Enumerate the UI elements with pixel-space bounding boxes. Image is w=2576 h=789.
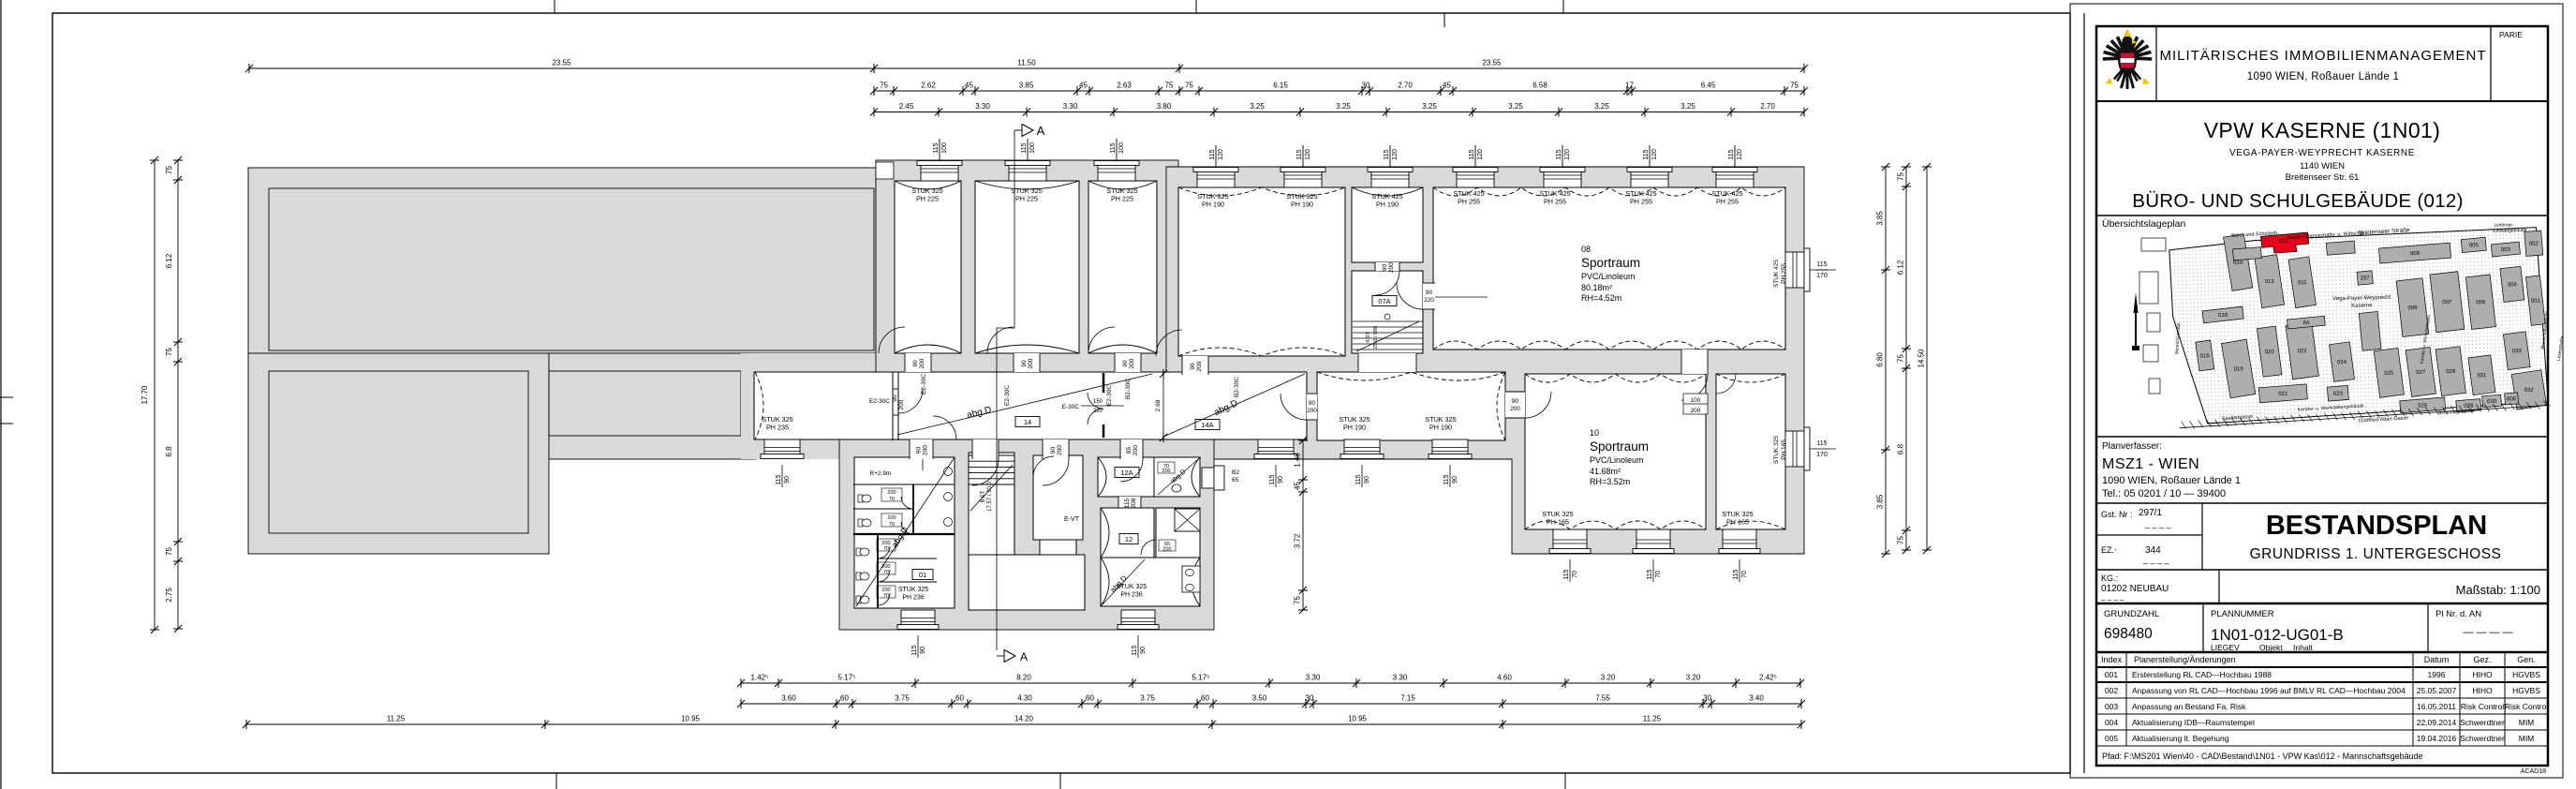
svg-text:70: 70 [889, 522, 895, 528]
svg-text:200: 200 [1510, 406, 1520, 412]
svg-text:PH 190: PH 190 [1376, 201, 1399, 209]
svg-text:E-30C: E-30C [1062, 404, 1080, 410]
svg-text:Datum: Datum [2424, 655, 2450, 664]
svg-text:014: 014 [2233, 261, 2243, 266]
window north 3 leader [1116, 139, 1118, 160]
svg-text:033: 033 [2512, 349, 2523, 354]
svg-text:200: 200 [1307, 408, 1317, 414]
svg-text:PH 190: PH 190 [1343, 424, 1366, 432]
svg-text:6.8: 6.8 [1897, 443, 1905, 454]
svg-text:001: 001 [2531, 299, 2541, 305]
door corridor-midroom [1307, 394, 1317, 420]
svg-text:Pl Nr. d. AN: Pl Nr. d. AN [2435, 609, 2481, 619]
svg-text:14: 14 [1024, 418, 1031, 426]
svg-text:200: 200 [919, 358, 925, 368]
svg-text:2.42⁵: 2.42⁵ [1759, 674, 1777, 682]
door evt arc [1033, 456, 1054, 477]
svg-text:115: 115 [933, 142, 940, 153]
svg-text:PH 190: PH 190 [1202, 201, 1224, 209]
svg-text:3.30: 3.30 [1393, 674, 1408, 682]
room cellar 2 STUK325 PH225 [975, 181, 1079, 353]
annex-building connector wall [741, 353, 876, 459]
fold mark top 1 [554, 0, 555, 13]
svg-text:Objekt: Objekt [2259, 643, 2283, 652]
window north 8 leader [1562, 145, 1563, 167]
svg-text:11.50: 11.50 [1017, 59, 1036, 67]
svg-text:3.30: 3.30 [975, 102, 990, 111]
svg-text:009: 009 [2407, 305, 2418, 311]
svg-text:90: 90 [1382, 264, 1388, 272]
svg-text:PH 190: PH 190 [1429, 424, 1452, 432]
svg-text:1996: 1996 [2428, 670, 2446, 679]
svg-text:25.05.2007: 25.05.2007 [2417, 686, 2457, 695]
window north 9 leader [1649, 145, 1651, 167]
svg-text:STUK 325: STUK 325 [1773, 436, 1780, 464]
room 12A label [1115, 468, 1139, 478]
window north 9 [1631, 171, 1668, 187]
svg-text:4.30: 4.30 [1017, 694, 1032, 703]
stair shaft [969, 453, 1014, 555]
svg-text:11.25: 11.25 [387, 715, 406, 723]
svg-text:004: 004 [2508, 282, 2518, 288]
wc block room [854, 457, 955, 608]
svg-text:70: 70 [889, 497, 895, 502]
svg-text:_ _ _ _: _ _ _ _ [2144, 526, 2172, 535]
dim top row C [874, 112, 1804, 113]
annex north block [248, 168, 876, 353]
cell dims [1158, 462, 1175, 473]
svg-text:90: 90 [1190, 363, 1196, 370]
svg-text:200: 200 [1162, 547, 1171, 553]
door sport08-sport10 label [1683, 394, 1708, 414]
window east 2 leader [1810, 448, 1836, 450]
svg-text:30: 30 [1362, 82, 1370, 90]
fold mark bottom 3 [1564, 773, 1566, 789]
svg-text:120: 120 [1737, 149, 1743, 160]
svg-text:Inhalt: Inhalt [2293, 643, 2313, 652]
svg-text:Maßstab: 1:100: Maßstab: 1:100 [2456, 583, 2540, 597]
svg-text:3.25: 3.25 [1422, 102, 1437, 111]
svg-text:70: 70 [883, 570, 889, 575]
section line A [997, 130, 1014, 650]
window south band 2 leader [1275, 465, 1277, 487]
room double STUK325 PH190 [1178, 187, 1345, 356]
svg-text:PVC/Linoleum: PVC/Linoleum [1590, 455, 1644, 465]
svg-text:17.70: 17.70 [141, 385, 149, 405]
svg-text:HIHO: HIHO [2472, 670, 2493, 679]
svg-text:65: 65 [1232, 477, 1239, 484]
svg-text:115: 115 [1643, 149, 1650, 159]
svg-text:75: 75 [1897, 536, 1905, 544]
svg-text:001: 001 [2105, 670, 2118, 679]
svg-text:70: 70 [1741, 571, 1748, 578]
austrian eagle coat of arms [2103, 29, 2152, 89]
svg-text:Gez.: Gez. [2473, 655, 2491, 664]
wc stall dividers low [878, 558, 937, 559]
window north 8 [1544, 171, 1581, 187]
svg-text:115: 115 [1021, 142, 1028, 153]
stair steps [969, 454, 1014, 456]
wc wall x975 [912, 484, 914, 534]
fold mark top 3 [1562, 0, 1564, 13]
svg-text:75: 75 [165, 166, 173, 174]
svg-text:200: 200 [1196, 361, 1203, 371]
svg-text:PH 255: PH 255 [1458, 198, 1480, 206]
svg-text:1N01-012-UG01-B: 1N01-012-UG01-B [2211, 626, 2344, 644]
svg-text:VEGA-PAYER-WEYPRECHT KASERNE: VEGA-PAYER-WEYPRECHT KASERNE [2229, 148, 2415, 158]
corridor west end scallop [755, 372, 763, 439]
svg-text:11.25: 11.25 [1643, 715, 1662, 723]
svg-text:115: 115 [1563, 569, 1570, 579]
svg-text:011: 011 [2298, 280, 2307, 286]
sportraum 08 [1433, 187, 1785, 350]
door 12A-12 [1118, 497, 1141, 508]
svg-text:Planerstellung/Änderungen: Planerstellung/Änderungen [2134, 655, 2236, 664]
svg-text:90: 90 [912, 360, 919, 367]
svg-text:6.45: 6.45 [1701, 82, 1716, 90]
svg-text:2.70: 2.70 [1398, 82, 1413, 90]
dim top total row [249, 67, 1804, 69]
corridor room label 14A [1195, 420, 1220, 430]
svg-text:3.30: 3.30 [1306, 674, 1321, 682]
svg-text:3.85: 3.85 [1876, 494, 1885, 509]
room 12 [1101, 508, 1154, 558]
evt below strip [1040, 540, 1076, 555]
shaft X box [1175, 509, 1200, 531]
svg-text:005: 005 [2469, 243, 2480, 248]
wc room label 01 [912, 570, 933, 580]
section flag top [1014, 129, 1022, 131]
svg-text:14.20: 14.20 [1014, 715, 1034, 723]
svg-text:B2: B2 [1232, 469, 1239, 476]
grundzahl divider 2 [2427, 603, 2429, 652]
svg-text:75: 75 [1185, 82, 1193, 90]
svg-text:PLANNUMMER: PLANNUMMER [2211, 609, 2274, 619]
svg-text:200: 200 [1133, 445, 1139, 455]
svg-text:2.75: 2.75 [165, 588, 173, 603]
svg-text:STUK 425: STUK 425 [1773, 260, 1780, 288]
svg-text:3.25: 3.25 [1594, 102, 1609, 111]
svg-text:75: 75 [165, 348, 173, 356]
svg-text:PH 255: PH 255 [1716, 198, 1739, 206]
svg-text:1.42⁵: 1.42⁵ [751, 674, 769, 682]
svg-text:220: 220 [1424, 297, 1434, 304]
svg-text:90: 90 [892, 394, 898, 402]
svg-text:4.ST: 4.ST [1366, 332, 1371, 343]
south wing walls [839, 438, 1214, 630]
svg-text:027: 027 [2416, 370, 2426, 376]
svg-text:100: 100 [1691, 397, 1701, 404]
svg-text:008: 008 [2410, 251, 2421, 257]
svg-text:70: 70 [883, 593, 889, 599]
room 12 label [1119, 534, 1138, 544]
window north 5 leader [1302, 145, 1304, 167]
svg-text:R+2.9m: R+2.9m [870, 470, 892, 477]
fold mark top 4 [1443, 13, 1445, 27]
svg-text:806: 806 [2507, 396, 2517, 402]
svg-text:90: 90 [784, 476, 791, 484]
svg-text:MIM: MIM [2519, 734, 2535, 743]
wing wc cell [1182, 566, 1200, 592]
svg-text:E2-30C: E2-30C [1106, 385, 1113, 406]
door corridor-wc [910, 439, 933, 459]
svg-text:90: 90 [1364, 476, 1370, 484]
door sport08-sport10 [1681, 350, 1708, 374]
wing bottom room [1101, 558, 1200, 606]
svg-text:115: 115 [1469, 149, 1475, 159]
wc toilets [858, 495, 871, 502]
svg-text:75: 75 [1294, 596, 1302, 604]
svg-text:100: 100 [941, 142, 948, 154]
revision table [2096, 666, 2548, 668]
svg-text:ACAD18: ACAD18 [2521, 768, 2546, 775]
svg-text:01: 01 [919, 571, 926, 579]
svg-text:120: 120 [1651, 149, 1658, 160]
svg-text:HGVBS: HGVBS [2512, 686, 2540, 695]
dim right chain outer [1885, 167, 1887, 554]
stair circle [990, 446, 996, 452]
svg-text:Gen.: Gen. [2517, 655, 2536, 664]
stair vestibule 07A [1352, 271, 1423, 353]
svg-text:115: 115 [776, 474, 782, 484]
svg-text:115: 115 [1384, 149, 1390, 159]
svg-text:90: 90 [916, 447, 923, 454]
page left paper edge [0, 0, 2, 789]
svg-text:200: 200 [1691, 408, 1701, 414]
dim top row B west [874, 90, 1179, 92]
annex mid inner room [549, 371, 741, 436]
window north 6 leader [1389, 145, 1391, 167]
cell abgD [1158, 459, 1198, 495]
window east 1 [1785, 252, 1804, 288]
svg-text:12A: 12A [1120, 469, 1133, 477]
wc wall y543 [853, 508, 913, 510]
svg-text:90: 90 [1452, 476, 1458, 484]
svg-text:018: 018 [2218, 313, 2228, 319]
svg-text:70: 70 [1572, 571, 1578, 578]
corridor partition wall x953 [892, 372, 894, 440]
revision table top line [2096, 651, 2548, 654]
svg-text:237: 237 [2361, 275, 2371, 281]
svg-text:100: 100 [1029, 142, 1036, 154]
svg-text:698480: 698480 [2104, 626, 2153, 642]
svg-text:VPW KASERNE (1N01): VPW KASERNE (1N01) [2204, 118, 2441, 142]
svg-text:_ _ _ _: _ _ _ _ [2142, 555, 2170, 564]
corridor ceiling line 2 [1163, 374, 1305, 437]
svg-text:3.75: 3.75 [1140, 694, 1155, 703]
svg-text:3.75: 3.75 [895, 694, 910, 703]
svg-text:016: 016 [2200, 353, 2211, 359]
room east-south STUK325 PH165 [1716, 374, 1785, 529]
svg-text:Anpassung von RL CAD—Hochba: Anpassung von RL CAD—Hochbau 1996 auf BM… [2132, 686, 2406, 695]
door sport10 arc2 [1716, 374, 1736, 394]
svg-text:1090 WIEN, Roßauer Lände 1: 1090 WIEN, Roßauer Lände 1 [2102, 475, 2241, 486]
window east-wing south 1 leader [1569, 559, 1571, 582]
fold mark top 2 [1195, 0, 1197, 13]
room small STUK425 PH190 [1352, 187, 1423, 262]
svg-text:GRUNDZAHL: GRUNDZAHL [2104, 609, 2159, 619]
svg-text:30: 30 [1306, 694, 1314, 703]
svg-text:10: 10 [1590, 428, 1599, 438]
window east 1 leader [1810, 269, 1836, 271]
corridor partition door [893, 388, 898, 390]
svg-text:020: 020 [2265, 350, 2275, 355]
svg-text:120: 120 [1305, 149, 1311, 160]
svg-text:RH=4.52m: RH=4.52m [1581, 293, 1621, 303]
window south band 2 [1258, 439, 1294, 454]
svg-text:3.85: 3.85 [1019, 82, 1034, 90]
room mid-south top scallops [1317, 372, 1505, 380]
svg-text:3.60: 3.60 [781, 694, 796, 703]
svg-text:75: 75 [1165, 82, 1174, 90]
wc wall y570 thick [853, 533, 955, 535]
room 12A cell [1154, 457, 1200, 497]
window south band 4 leader [1449, 465, 1451, 487]
svg-text:14A: 14A [1201, 421, 1213, 429]
svg-text:23.55: 23.55 [552, 59, 571, 67]
west facade notch [876, 162, 894, 179]
svg-text:RH=3.52m: RH=3.52m [1590, 477, 1630, 486]
title column divider [2083, 13, 2085, 773]
svg-text:150: 150 [1093, 399, 1103, 405]
svg-text:3.25: 3.25 [1680, 102, 1695, 111]
corridor double door arcs [1088, 393, 1103, 409]
dim top row B east [1179, 90, 1804, 92]
svg-text:005: 005 [2105, 734, 2118, 743]
svg-text:90: 90 [1140, 647, 1147, 654]
svg-text:024: 024 [2337, 360, 2347, 365]
svg-text:E2-30C: E2-30C [921, 374, 927, 394]
window north 7 [1457, 171, 1494, 187]
svg-text:115: 115 [1296, 149, 1303, 159]
door midroom-sport10 [1505, 392, 1525, 418]
evt room [1033, 455, 1083, 540]
stair 07A circle [1384, 314, 1390, 320]
door room4-corridor [1182, 356, 1208, 375]
svg-text:023: 023 [2333, 392, 2344, 397]
svg-text:75: 75 [165, 547, 173, 556]
svg-text:PH 236: PH 236 [1120, 592, 1142, 599]
dim bottom row 2 [741, 703, 1801, 705]
svg-text:026: 026 [2418, 403, 2428, 409]
svg-text:17: 17 [1625, 82, 1634, 90]
svg-text:60: 60 [840, 694, 849, 703]
svg-text:2.45: 2.45 [899, 102, 914, 111]
svg-text:200: 200 [1057, 445, 1063, 455]
svg-text:75: 75 [1790, 82, 1799, 90]
corridor partition stubs [1103, 373, 1105, 393]
svg-text:115: 115 [1132, 645, 1138, 655]
svg-text:60: 60 [1086, 694, 1094, 703]
fold mark left 2 [0, 423, 13, 424]
svg-text:031: 031 [2477, 373, 2487, 379]
svg-text:115: 115 [1556, 149, 1562, 159]
window east-wing south 2 [1636, 529, 1670, 549]
door vestibule top [1375, 262, 1399, 271]
svg-text:— — — —: — — — — [2463, 627, 2512, 638]
door corridor-evt [1043, 439, 1069, 459]
svg-text:1.48: 1.48 [1294, 453, 1302, 468]
svg-text:1140 WIEN: 1140 WIEN [2300, 161, 2345, 171]
svg-text:BÜRO- UND SCHULGEBÄUDE (012): BÜRO- UND SCHULGEBÄUDE (012) [2132, 190, 2464, 212]
svg-text:70: 70 [1655, 571, 1662, 578]
svg-text:PH 236: PH 236 [902, 595, 924, 602]
window wing south 2 leader [1137, 635, 1139, 658]
building west band walls [876, 160, 1178, 459]
svg-text:PH 190: PH 190 [1291, 201, 1313, 209]
svg-text:025: 025 [2384, 371, 2394, 377]
svg-text:STUK 325: STUK 325 [898, 587, 928, 593]
wc wall y517 [853, 484, 955, 485]
svg-text:032: 032 [2524, 388, 2535, 394]
fold mark left 1 [0, 396, 13, 398]
window east-wing south 1 [1553, 529, 1587, 549]
svg-text:HGVBS: HGVBS [2512, 670, 2540, 679]
svg-text:14.50: 14.50 [1917, 349, 1926, 368]
window north 3 [1098, 165, 1135, 181]
door corridor-stair [972, 439, 999, 459]
svg-text:120: 120 [1477, 149, 1484, 160]
svg-text:5.17⁵: 5.17⁵ [1192, 674, 1210, 682]
svg-text:Aktualisierung lt. Begehung: Aktualisierung lt. Begehung [2132, 734, 2229, 743]
svg-text:PH 165: PH 165 [1547, 518, 1569, 527]
title block outer box [2096, 26, 2548, 766]
door room1-corridor [905, 353, 931, 372]
header parie cell divider [2490, 26, 2492, 101]
svg-text:Pfad: F:\MS201 Wien\40 - CAD\B: Pfad: F:\MS201 Wien\40 - CAD\Bestand\1N0… [2102, 752, 2423, 761]
svg-text:90: 90 [1122, 360, 1129, 367]
svg-text:E2-30C: E2-30C [1004, 385, 1011, 406]
dim bottom row 1 [741, 682, 1800, 684]
wc wall x937 [877, 534, 879, 608]
svg-text:208: 208 [1131, 498, 1137, 508]
svg-text:100: 100 [1118, 142, 1125, 154]
header bottom line [2096, 100, 2548, 102]
svg-text:Schwerdtner: Schwerdtner [2460, 718, 2505, 727]
svg-text:115: 115 [1124, 498, 1131, 508]
svg-text:30: 30 [1703, 694, 1711, 703]
svg-text:A: A [1037, 124, 1045, 138]
svg-text:6.8: 6.8 [165, 446, 173, 457]
svg-text:Ersterstellung RL CAD—Hochba: Ersterstellung RL CAD—Hochbau 1988 [2132, 670, 2272, 679]
svg-text:029: 029 [2446, 369, 2456, 375]
svg-text:6.12: 6.12 [165, 253, 173, 268]
svg-text:A: A [1020, 650, 1028, 663]
svg-text:6.58: 6.58 [1532, 82, 1547, 90]
svg-text:16.05.2011: 16.05.2011 [2417, 702, 2456, 711]
wing bottom abgD [1103, 559, 1145, 604]
fold mark bottom 2 [1059, 773, 1061, 789]
svg-text:115: 115 [1269, 474, 1276, 484]
svg-text:90: 90 [1512, 398, 1519, 405]
svg-text:115: 115 [1816, 261, 1827, 268]
svg-text:E-VT: E-VT [1064, 516, 1080, 523]
svg-text:MSZ1 - WIEN: MSZ1 - WIEN [2102, 456, 2199, 472]
svg-text:6.80: 6.80 [1876, 352, 1885, 367]
door corridor-12A [1120, 439, 1143, 459]
svg-text:200: 200 [1028, 358, 1034, 368]
svg-text:3.25: 3.25 [1336, 102, 1351, 111]
annex north inner room [269, 188, 874, 350]
room mid-south STUK325 PH190 [1317, 372, 1505, 440]
window north 10 [1716, 171, 1754, 187]
svg-text:2.70: 2.70 [1760, 102, 1775, 111]
svg-text:PARIE: PARIE [2499, 30, 2523, 39]
svg-text:45: 45 [1079, 82, 1088, 90]
svg-text:PH 165: PH 165 [1726, 518, 1749, 527]
svg-text:19.04.2016: 19.04.2016 [2417, 734, 2457, 743]
door room3-corridor [1115, 353, 1141, 372]
